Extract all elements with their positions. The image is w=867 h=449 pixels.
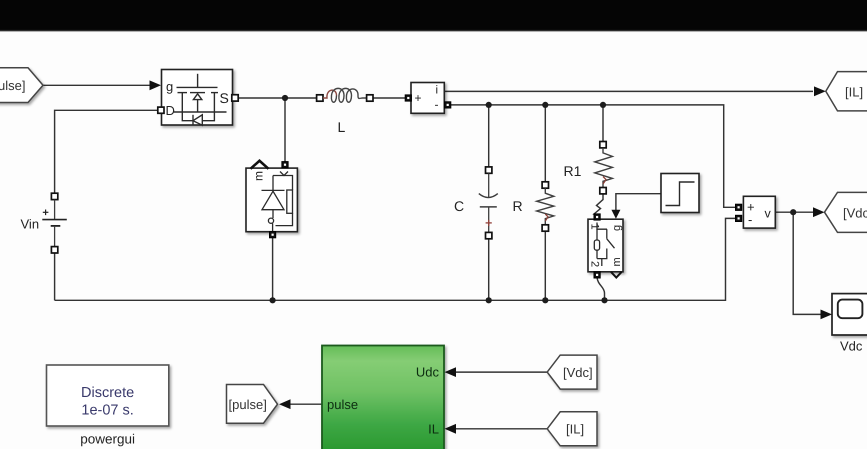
mosfet gate bar — [177, 86, 218, 88]
wire current sensor minus to vm plus — [451, 105, 736, 207]
wire mosfet D to Vin top — [55, 110, 158, 193]
resistor R — [542, 182, 548, 188]
svg-text:+: + — [415, 91, 422, 105]
mosfet channel bars — [178, 92, 188, 94]
junction node breaker rail — [601, 297, 607, 303]
port square diode top (filled) — [282, 162, 288, 168]
wire R branch top — [544, 105, 546, 182]
port square vm plus (filled) — [736, 204, 742, 210]
wire diode anode down to rail — [272, 238, 274, 301]
diode snubber top wire — [273, 176, 293, 191]
step block — [661, 174, 699, 213]
inductor L — [317, 95, 323, 101]
arrowhead into IL goto — [814, 86, 826, 96]
svg-text:[pulse]: [pulse] — [229, 397, 267, 412]
goto tag [pulse] bottom — [227, 385, 278, 424]
svg-text:S: S — [220, 90, 229, 106]
svg-text:C: C — [454, 198, 464, 214]
port square mosfet D — [158, 107, 164, 113]
wire vm node down to scope — [793, 212, 822, 314]
bottom rail wire — [55, 218, 736, 300]
svg-text:v: v — [765, 207, 772, 221]
breaker contact arm — [607, 239, 615, 248]
port square vm minus (filled) — [736, 215, 742, 221]
svg-text:Udc: Udc — [416, 365, 440, 380]
port square diode bottom (filled) — [270, 232, 276, 238]
wire current sensor i output to IL goto — [444, 90, 813, 92]
arrowhead into subsystem IL — [445, 424, 457, 434]
current measurement block — [411, 83, 444, 114]
junction node vm output — [790, 209, 796, 215]
diode orientation chevron — [251, 161, 269, 169]
port square current sensor plus (filled) — [405, 95, 411, 101]
arrowhead into mosfet gate — [150, 80, 162, 90]
capacitor C — [486, 167, 492, 173]
svg-text:ulse]: ulse] — [0, 78, 25, 93]
breaker m chevron — [611, 272, 622, 278]
subsystem block (green) — [322, 346, 444, 449]
wire C branch top — [488, 105, 490, 167]
mosfet right leg — [202, 93, 214, 121]
port square current sensor minus out (filled) — [445, 102, 451, 108]
wire mosfet S to inductor — [238, 97, 318, 99]
mosfet left leg — [182, 93, 192, 121]
mosfet body diode arrow — [193, 94, 201, 100]
wire node S down to diode cathode — [284, 98, 286, 162]
Vin short plate — [51, 225, 61, 227]
wire step to breaker gate — [616, 194, 661, 211]
powergui block — [47, 365, 169, 426]
wire Vdc from-tag to subsystem Udc — [456, 371, 547, 373]
wire Vin bottom to ground rail — [54, 253, 56, 300]
breaker resistor rect — [594, 240, 599, 250]
diode snubber resistor — [287, 190, 293, 213]
from tag [IL] bottom — [547, 412, 597, 446]
junction node diode rail — [270, 297, 276, 303]
wire R1 to breaker squiggle — [594, 194, 603, 217]
svg-text:R1: R1 — [564, 163, 582, 179]
resistor R1 — [600, 142, 606, 148]
svg-text:m: m — [611, 257, 623, 266]
diode cathode bar — [262, 189, 285, 191]
diode small arrow top — [280, 172, 288, 176]
arrowhead into Vdc goto — [813, 207, 825, 217]
port square mosfet S — [232, 95, 238, 101]
diode anode stub — [272, 210, 274, 218]
breaker block — [588, 219, 623, 272]
breaker bottom bar — [597, 249, 607, 259]
svg-text:1: 1 — [589, 224, 601, 230]
wire R branch bottom — [544, 231, 546, 300]
svg-text:pulse: pulse — [327, 397, 358, 412]
from tag [Vdc] bottom — [547, 355, 597, 389]
svg-text:Vdc: Vdc — [840, 339, 863, 354]
svg-text:Discrete: Discrete — [81, 385, 134, 401]
svg-text:g: g — [166, 79, 173, 94]
svg-text:-: - — [435, 98, 439, 112]
mosfet gate vertical — [197, 74, 199, 87]
wire gate from pulse tag to mosfet — [43, 84, 151, 86]
svg-text:[IL]: [IL] — [566, 422, 584, 437]
arrowhead into breaker gate — [611, 210, 620, 219]
diode block D1 — [246, 168, 297, 232]
junction node C rail — [486, 297, 492, 303]
junction node R rail — [542, 297, 548, 303]
svg-text:-: - — [748, 212, 752, 227]
dc source Vin — [51, 193, 57, 199]
diode top stub — [272, 176, 274, 191]
junction node R top — [542, 102, 548, 108]
junction node C top — [486, 102, 492, 108]
svg-text:R: R — [513, 198, 523, 214]
scope block Vdc — [832, 294, 867, 335]
goto tag [IL] top right — [826, 72, 867, 111]
Vin long plate — [42, 219, 67, 221]
top black bar — [0, 0, 867, 30]
junction node on S wire — [282, 95, 288, 101]
svg-text:[Vdc]: [Vdc] — [843, 206, 867, 221]
svg-text:Vin: Vin — [21, 217, 40, 232]
svg-text:[Vdc]: [Vdc] — [563, 365, 593, 380]
svg-text:IL: IL — [428, 422, 439, 437]
svg-text:g: g — [611, 225, 623, 231]
capacitor red plus mark — [486, 220, 492, 226]
wire inductor to current sensor — [373, 97, 407, 99]
breaker top bar — [597, 223, 607, 230]
wire vm output to Vdc goto — [775, 211, 814, 213]
wire breaker bottom squiggle to rail — [597, 277, 605, 300]
arrowhead into scope — [821, 310, 833, 320]
port square breaker 1 — [594, 214, 600, 220]
port square breaker 2 — [594, 272, 600, 278]
svg-text:2: 2 — [589, 261, 601, 267]
mosfet Q1 block — [162, 70, 233, 126]
goto tag [Vdc] right — [825, 192, 867, 232]
voltage measurement block — [743, 196, 775, 228]
diode snubber bottom wire — [276, 213, 293, 225]
wire IL from-tag to subsystem IL — [456, 428, 547, 430]
breaker contact fixed — [606, 229, 608, 239]
mosfet bottom diode — [193, 115, 202, 126]
arrowhead into subsystem Udc — [445, 367, 457, 377]
svg-text:L: L — [338, 119, 346, 135]
svg-text:m: m — [252, 171, 266, 181]
svg-text:powergui: powergui — [80, 432, 135, 447]
mosfet drain bar — [174, 111, 227, 113]
arrowhead into pulse goto — [279, 399, 291, 409]
wire R1 branch top — [602, 105, 604, 142]
diode triangle — [262, 191, 284, 210]
svg-text:i: i — [436, 85, 439, 97]
step waveform icon — [666, 182, 695, 206]
svg-text:[IL]: [IL] — [845, 85, 863, 100]
wire subsystem pulse to goto pulse — [290, 403, 322, 405]
junction node R1 top — [600, 102, 606, 108]
svg-text:1e-07 s.: 1e-07 s. — [81, 403, 133, 419]
from tag [pulse] top left clipped — [0, 68, 43, 103]
svg-text:D: D — [166, 103, 175, 118]
diode bottom circle — [268, 218, 273, 223]
Vin plus sign — [43, 210, 49, 216]
wire C branch bottom — [488, 239, 490, 301]
